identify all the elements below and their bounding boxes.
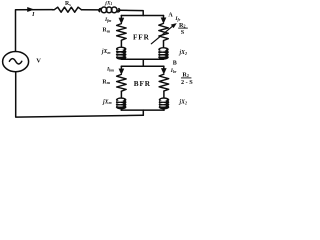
wire coil stubs to bottom bar [121, 109, 164, 110]
inductor jXm (backward) [116, 97, 127, 109]
svg-text:A: A [168, 13, 173, 19]
svg-text:Ifm: Ifm [104, 17, 111, 23]
label R2/s fraction [178, 22, 188, 36]
svg-text:2 - S: 2 - S [181, 79, 193, 86]
svg-text:Rm: Rm [102, 79, 110, 85]
wire Rs to jX1 [82, 9, 102, 11]
resistor Rm (backward) [117, 74, 127, 91]
wire bar bottom of BFR [121, 109, 164, 111]
inductor jX2 (forward) [158, 47, 169, 60]
variable resistor arrow (forward) [151, 26, 173, 44]
wire top-left: source top to Rs [16, 10, 53, 52]
resistor Rm (forward) [117, 24, 127, 41]
wire arrow current I [28, 7, 34, 11]
svg-text:S: S [181, 29, 185, 36]
wire branch arrow Ifr [163, 16, 165, 22]
wire stub FFR to BFR node B [142, 59, 144, 66]
resistor Rs [53, 7, 82, 12]
wire stub to bottom rail [142, 110, 144, 115]
wire bar top of BFR [121, 65, 164, 67]
wire bar bottom of FFR [121, 58, 163, 60]
wire branch arrow Ibr [163, 66, 165, 72]
svg-text:B: B [173, 61, 177, 67]
svg-text:I: I [31, 12, 35, 18]
svg-text:Rs: Rs [65, 1, 71, 7]
svg-text:jXm: jXm [102, 99, 112, 105]
svg-text:R2: R2 [182, 71, 188, 78]
wire branch arrow Ibm [120, 66, 122, 72]
inductor jX1 [99, 7, 120, 13]
wire Rm to jXm (forward) [120, 41, 122, 47]
variable resistor R2/s (forward) [159, 23, 169, 41]
label R2/(2-s) fraction [181, 71, 193, 86]
wire R2/(2-s) to jX2 (backward) [163, 91, 165, 98]
ac source V [3, 52, 29, 72]
svg-text:Ibm: Ibm [106, 67, 114, 73]
inductor jX2 (backward) [159, 97, 170, 109]
wire Rm to jXm (backward) [120, 91, 122, 98]
wire bar top of FFR [121, 15, 163, 17]
svg-text:BFR: BFR [134, 80, 151, 88]
svg-text:jX2: jX2 [179, 50, 187, 56]
svg-text:jX2: jX2 [179, 100, 187, 106]
inductor jXm (forward) [116, 47, 127, 60]
wire branch arrow Ifm [120, 16, 122, 22]
svg-text:Ibr: Ibr [170, 68, 177, 74]
svg-text:V: V [36, 58, 41, 65]
svg-text:Rm: Rm [103, 28, 111, 34]
wire jX1 to FFR feed corner [118, 10, 143, 15]
wire bottom rail [16, 72, 144, 118]
svg-text:jXm: jXm [101, 49, 111, 55]
wire R2/s to jX2 (forward) [163, 41, 165, 47]
svg-text:FFR: FFR [133, 33, 150, 41]
resistor R2/(2-s) (backward) [159, 74, 169, 91]
svg-text:jX1: jX1 [104, 0, 112, 6]
